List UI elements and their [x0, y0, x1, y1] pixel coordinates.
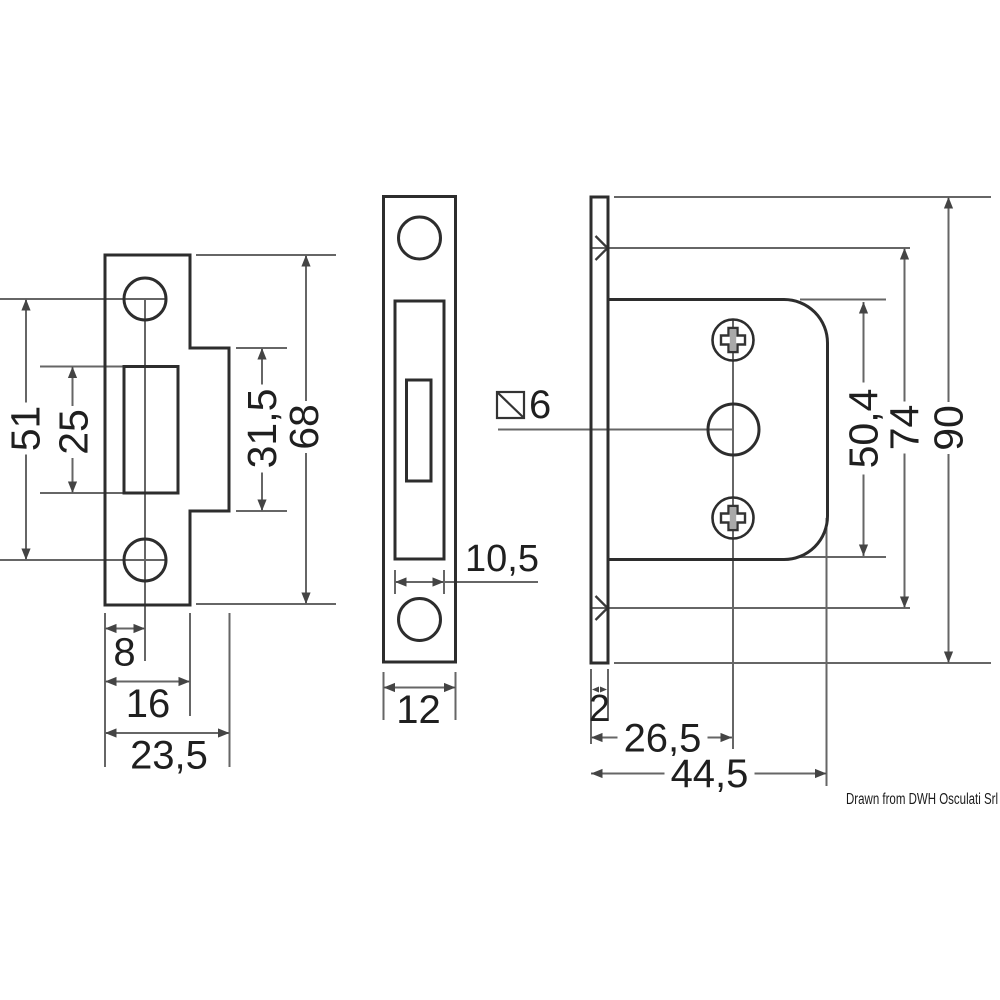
svg-text:50,4: 50,4: [841, 389, 887, 469]
svg-text:51: 51: [3, 406, 49, 452]
svg-text:25: 25: [51, 409, 97, 455]
svg-text:23,5: 23,5: [130, 734, 208, 778]
svg-text:44,5: 44,5: [671, 752, 749, 796]
svg-text:16: 16: [126, 682, 171, 726]
svg-text:90: 90: [926, 405, 972, 451]
svg-text:2: 2: [589, 688, 610, 730]
svg-text:74: 74: [882, 405, 928, 451]
svg-text:10,5: 10,5: [465, 538, 539, 580]
svg-text:31,5: 31,5: [239, 389, 285, 469]
svg-text:6: 6: [529, 383, 551, 427]
svg-text:68: 68: [281, 404, 327, 450]
svg-text:Drawn from DWH Osculati Srl: Drawn from DWH Osculati Srl: [846, 791, 998, 808]
svg-text:12: 12: [396, 688, 441, 732]
svg-text:8: 8: [113, 631, 135, 675]
